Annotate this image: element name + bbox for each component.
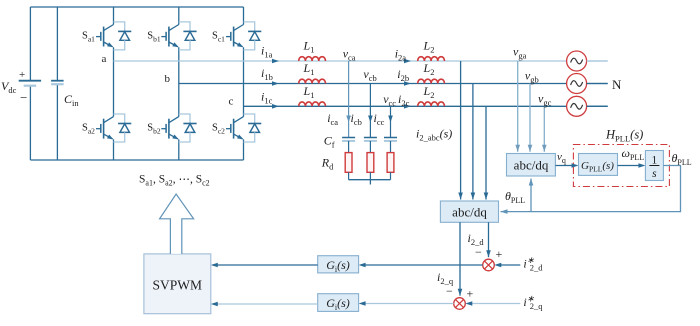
wire current sense tap i2a to abc/dq xyxy=(458,61,463,200)
svg-text:abc/dq: abc/dq xyxy=(514,158,549,173)
transistor Sc2 (IGBT with antiparallel diode) xyxy=(212,114,261,142)
AC grid source vga xyxy=(567,51,608,71)
wire filter star point xyxy=(349,180,391,185)
inductor L2 phase b xyxy=(418,61,445,84)
summing junction q-axis xyxy=(446,284,474,309)
wire voltage sense tap vgb to PLL abc/dq xyxy=(528,84,533,152)
capacitor Cf phase c xyxy=(384,138,397,153)
current arrow i1a xyxy=(261,44,279,64)
gate drive arrow SVPWM to switches xyxy=(160,194,194,254)
transistor Sb1 (IGBT with antiparallel diode) xyxy=(147,22,196,50)
wire phase b line xyxy=(179,83,608,85)
resistor Rd phase b xyxy=(367,153,374,180)
svg-text:a: a xyxy=(102,53,107,65)
capacitor Cin xyxy=(51,7,79,160)
dashed box HPLL xyxy=(573,145,669,187)
voltage source Vdc (battery) xyxy=(1,7,41,160)
wire GPLL to integrator xyxy=(618,163,646,168)
wire theta PLL feedback xyxy=(501,166,681,214)
inductor L1 phase c xyxy=(299,84,326,107)
transistor Sa1 (IGBT with antiparallel diode) xyxy=(82,22,131,50)
wire voltage sense tap vgc to PLL abc/dq xyxy=(542,106,547,152)
transistor Sc1 (IGBT with antiparallel diode) xyxy=(212,22,261,50)
wire capacitor tap phase b with current arrow icb xyxy=(368,84,373,138)
wire inverter leg b xyxy=(178,7,180,160)
current arrow i2b xyxy=(397,67,411,86)
block abc/dq (current transform) xyxy=(440,201,498,222)
svg-text:abc/dq: abc/dq xyxy=(452,205,487,220)
capacitor Cf phase b xyxy=(364,138,377,153)
wire phase a line xyxy=(114,60,608,62)
block Gi(s) d-axis xyxy=(318,256,359,274)
inductor L1 phase a xyxy=(299,39,326,62)
wire q-error to Gi xyxy=(359,301,454,306)
wire vq to GPLL xyxy=(555,163,578,168)
wire Gi d to SVPWM xyxy=(211,263,318,268)
inductor L2 phase c xyxy=(418,84,445,107)
inductor L1 phase b xyxy=(299,61,326,84)
svg-text:−: − xyxy=(475,245,482,259)
block Gi(s) q-axis xyxy=(318,294,359,312)
block GPLL(s) xyxy=(579,154,618,176)
wire bottom DC rail xyxy=(30,159,243,161)
wire capacitor tap phase c with current arrow icc xyxy=(388,106,393,137)
wire phase c line xyxy=(244,105,608,107)
wire d-error to Gi xyxy=(359,263,483,268)
wire current sense tap i2b to abc/dq xyxy=(471,84,476,200)
svg-text:+: + xyxy=(496,247,503,261)
resistor Rd phase a xyxy=(345,153,352,180)
svg-text:−: − xyxy=(20,90,27,105)
wire top DC rail xyxy=(30,6,243,8)
svg-text:+: + xyxy=(467,287,474,301)
current arrow i2c xyxy=(398,92,411,109)
block SVPWM xyxy=(144,254,211,314)
svg-text:SVPWM: SVPWM xyxy=(153,278,203,293)
block abc/dq (PLL voltage transform) U-PLL xyxy=(507,154,556,177)
wire iq reference input xyxy=(465,301,520,306)
svg-text:b: b xyxy=(165,73,171,85)
wire i2_q output xyxy=(458,222,463,295)
svg-text:s: s xyxy=(652,168,657,180)
AC grid source vgb xyxy=(567,74,608,94)
wire capacitor tap phase a with current arrow ica xyxy=(346,61,351,137)
wire inverter leg a xyxy=(113,7,115,160)
AC grid source vgc xyxy=(567,96,608,116)
wire current sense tap i2c to abc/dq xyxy=(484,106,489,199)
svg-text:−: − xyxy=(446,284,453,298)
inductor L2 phase a xyxy=(418,39,445,62)
svg-text:+: + xyxy=(19,69,25,81)
block integrator 1/s xyxy=(645,151,663,181)
svg-text:Gi(s): Gi(s) xyxy=(326,296,350,312)
summing junction d-axis xyxy=(475,245,503,271)
resistor Rd phase c xyxy=(387,153,394,180)
current arrow i2a xyxy=(395,47,411,64)
svg-text:c: c xyxy=(229,96,234,108)
wire voltage sense tap vga to PLL abc/dq xyxy=(515,61,520,152)
svg-text:N: N xyxy=(612,77,622,92)
wire inverter leg c xyxy=(243,7,245,160)
wire Gi q to SVPWM xyxy=(211,302,318,307)
svg-text:1: 1 xyxy=(652,155,658,167)
current arrow i1c xyxy=(261,90,279,109)
capacitor Cf phase a xyxy=(342,138,355,153)
svg-text:Gi(s): Gi(s) xyxy=(326,258,350,274)
wire i2_d output xyxy=(486,222,491,257)
transistor Sb2 (IGBT with antiparallel diode) xyxy=(147,114,196,142)
current arrow i1b xyxy=(261,66,279,86)
transistor Sa2 (IGBT with antiparallel diode) xyxy=(82,114,131,142)
wire id reference input xyxy=(494,263,520,268)
